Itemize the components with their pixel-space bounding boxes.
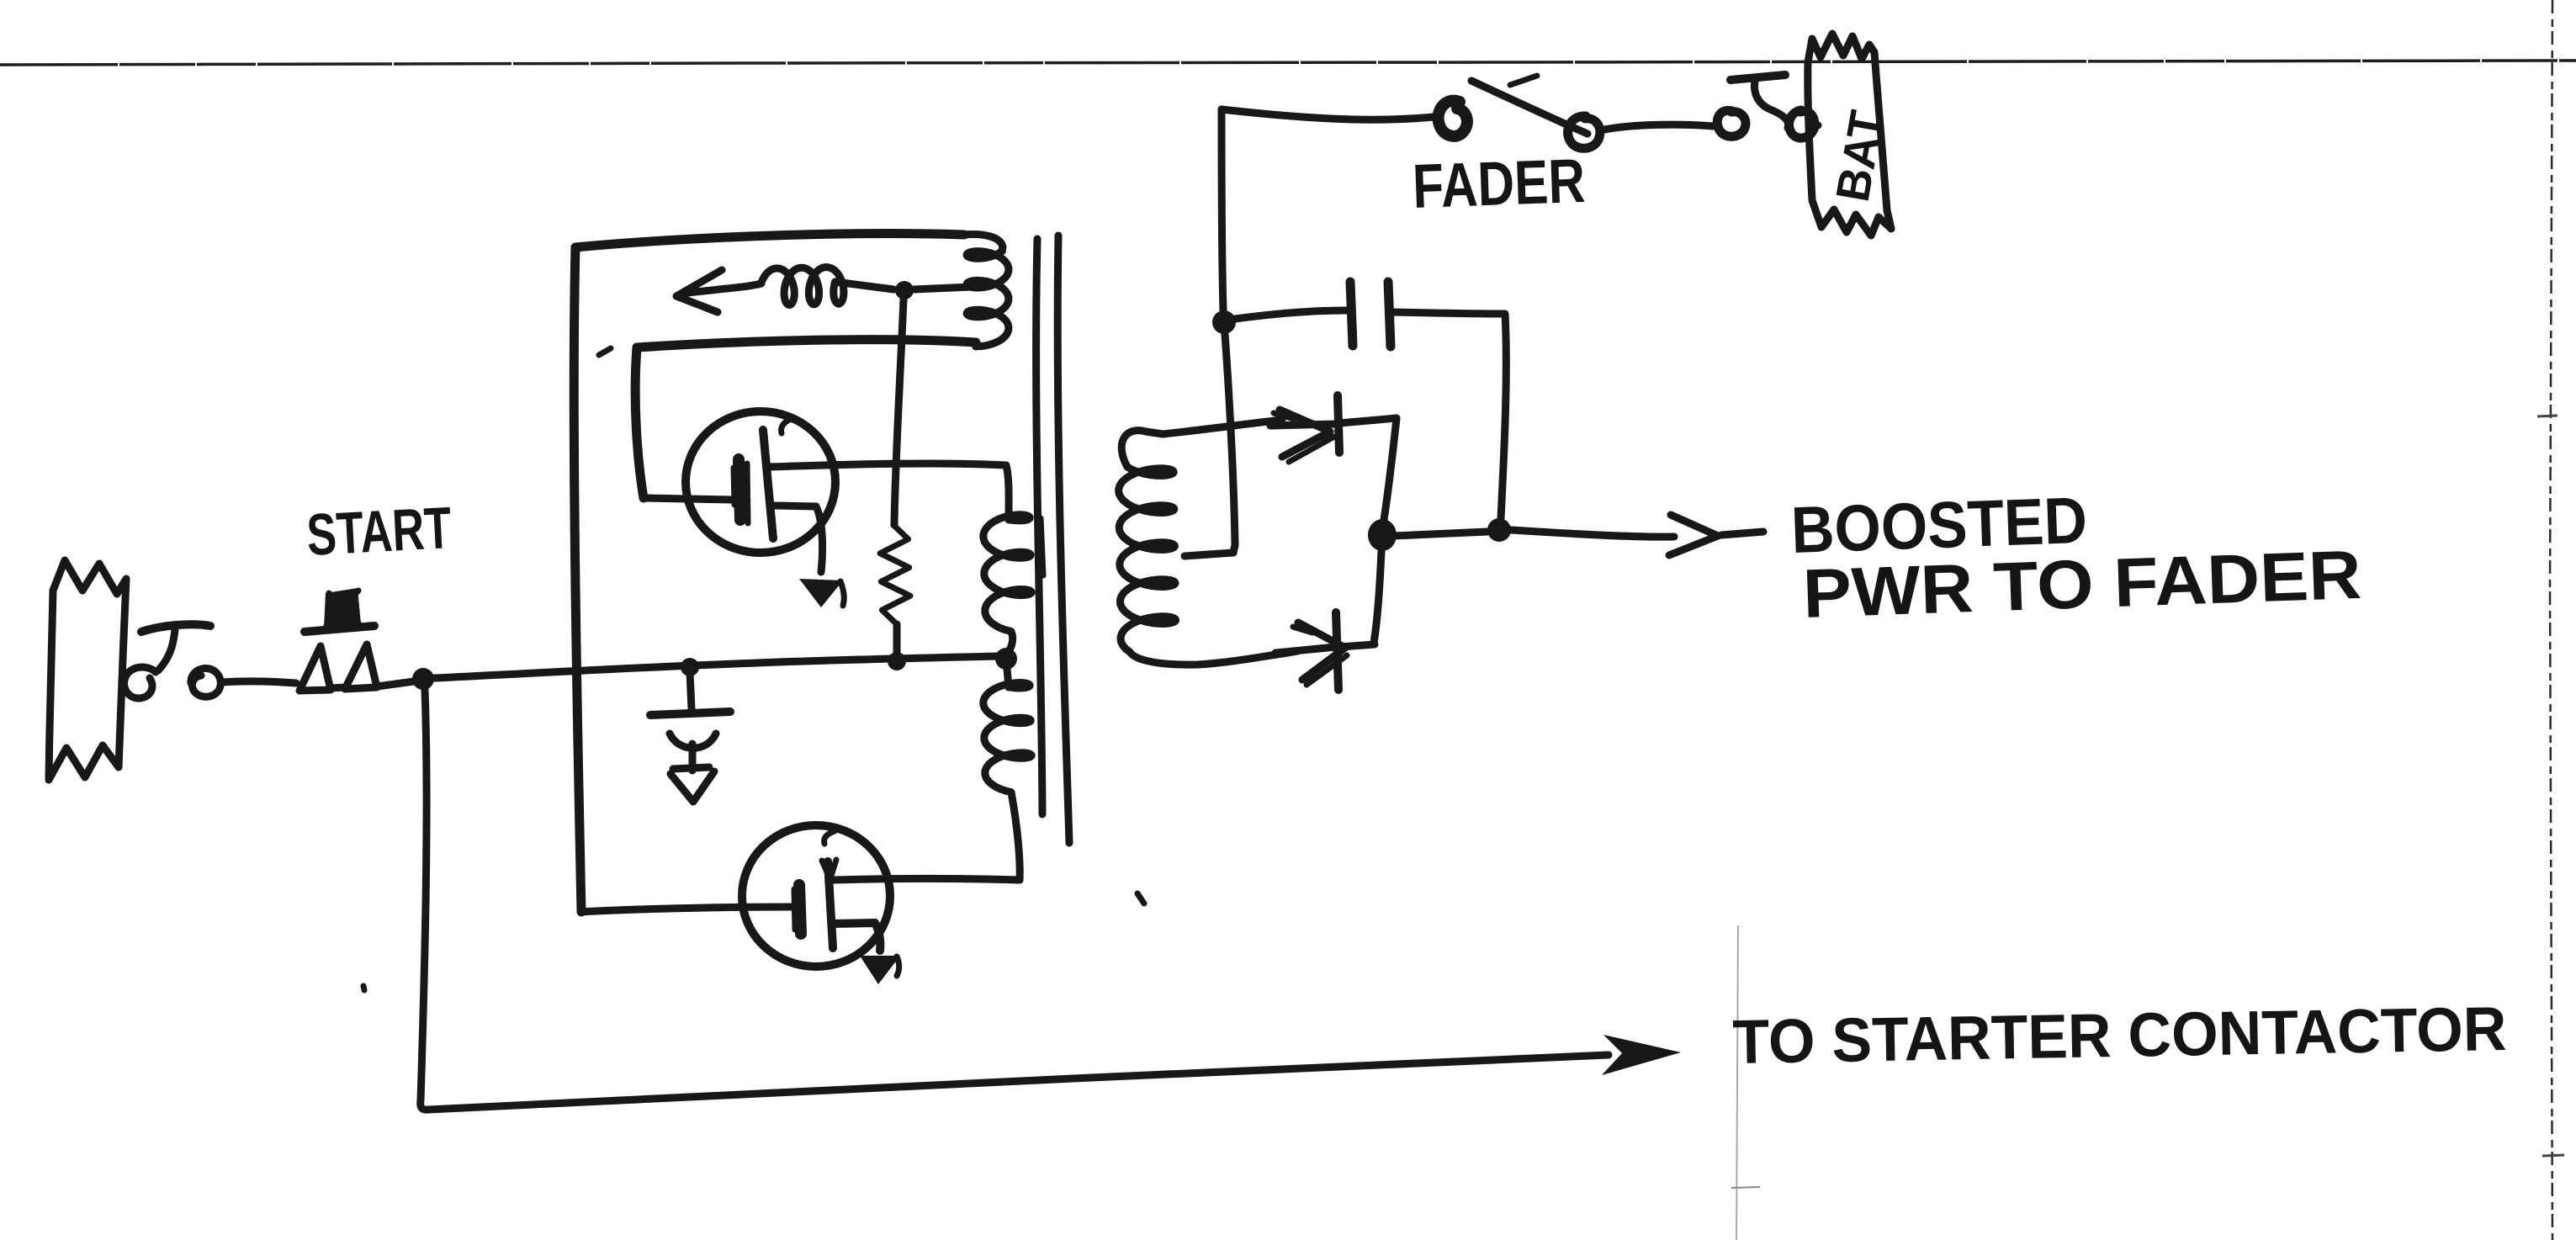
Q1 drain lead to mid winding: [769, 464, 1009, 520]
wire secondary bottom to D2: [1282, 651, 1297, 654]
inner box top edge: [637, 340, 976, 347]
fuse F2 (curl-T-curl): [1717, 75, 1818, 138]
svg-text:FADER: FADER: [1412, 146, 1587, 221]
paper crease (faint vertical line bottom middle): [1736, 925, 1738, 1240]
battery B1 torn paper (left): [49, 560, 126, 780]
fader switch left contact: [1439, 101, 1467, 136]
wire main horizontal (node N1 to transformer): [434, 656, 998, 678]
capacitor C2 right plate: [1388, 282, 1391, 347]
inner box left edge: [635, 347, 644, 498]
wire triangles to node: [331, 681, 414, 688]
diode D1 (top, open chevron + bar): [1270, 395, 1339, 462]
wire fader to fuse F2: [1600, 125, 1713, 130]
output wire to arrow: [1511, 530, 1674, 537]
capacitor C1 + ground (inside box): [650, 672, 730, 802]
wire top run to fader: [1222, 109, 1434, 119]
svg-text:TO STARTER CONTACTOR: TO STARTER CONTACTOR: [1732, 994, 2507, 1077]
node N1 (start switch junction): [412, 668, 434, 690]
wire box corner to Q2 gate: [581, 907, 791, 912]
transformer core left line: [1036, 239, 1042, 814]
mid primary winding: [983, 515, 1031, 632]
wire R1 to main wire: [893, 624, 901, 652]
node N6 (output node): [1487, 518, 1511, 542]
diode D2 (bottom, open chevron + bar): [1275, 612, 1347, 690]
node N3b (resistor to main wire): [888, 652, 906, 670]
wire node NA down to center tap: [1185, 334, 1235, 556]
secondary winding: [1119, 467, 1176, 652]
stray mark near secondary: [1137, 893, 1144, 904]
wire node NA up: [1222, 109, 1223, 310]
resistor R1 (vertical squiggle): [880, 525, 910, 624]
wire node NA to C2: [1235, 310, 1346, 319]
Q2 source lead + arrow: [833, 923, 880, 951]
lower primary winding: [1007, 669, 1009, 687]
tick marks right margin: [2537, 416, 2557, 416]
Q2 gate bar: [799, 885, 801, 934]
secondary bottom lead: [1130, 652, 1282, 665]
node N5 (rectifier output junction): [1368, 519, 1397, 551]
Q2 top diag strokes: [822, 860, 836, 876]
wire winding to Q2 drain: [833, 879, 1020, 881]
Q1 channel bar: [763, 430, 773, 538]
secondary winding top lead hook: [1121, 431, 1163, 467]
fader switch arm: [1471, 81, 1587, 134]
Q1 source lead + arrow: [775, 506, 823, 572]
Q2 channel bar: [828, 861, 833, 948]
small tick near box left edge: [599, 348, 611, 355]
transformer core right line: [1057, 236, 1069, 843]
wire fuse to switch: [222, 681, 296, 683]
oscillator box top edge: [575, 234, 964, 247]
arrowhead (boosted pwr): [1669, 515, 1718, 555]
node NA (center tap junction): [1212, 310, 1236, 334]
battery B2 torn paper (top right, BAT): [1808, 34, 1891, 236]
arrow + squiggle (feedback line inside box): [676, 268, 893, 313]
wire node N2 down to resistor R1: [894, 299, 904, 525]
wire node N2 to top winding: [914, 287, 973, 289]
secondary top lead to D1: [1163, 420, 1282, 434]
wire node N5 down to D2: [1374, 551, 1381, 643]
fader switch right contact: [1568, 116, 1600, 148]
switch S1 triangle 1: [299, 646, 331, 691]
transistor Q1 (circle): [686, 411, 835, 553]
wire D1 to node N5: [1339, 418, 1397, 525]
node N2 (small ring, on feedback line): [895, 281, 914, 299]
switch S1 button scribble: [324, 588, 361, 628]
transistor Q2 (circle): [742, 825, 890, 967]
transformer core left doubled stroke: [1041, 518, 1043, 575]
node N3a (cap tap on main wire): [681, 658, 699, 676]
wire to Q1 gate: [644, 498, 732, 500]
wire node N5 to node N6: [1394, 532, 1487, 536]
arrowhead (to starter contactor): [1602, 1035, 1681, 1075]
Q1 gate bar: [739, 459, 740, 520]
capacitor C2 left plate: [1350, 282, 1353, 346]
stray dot below node N1: [363, 986, 364, 990]
switch S1 bar under button: [305, 626, 374, 632]
top primary winding: [964, 235, 1003, 251]
wire node N1 down: [421, 690, 427, 1100]
wire bottom long run to starter contactor: [421, 1055, 1609, 1110]
oscillator box left edge: [574, 247, 581, 912]
fuse F1 (left, curl-T-curl): [125, 624, 221, 698]
wire C2 to down corner: [1393, 312, 1506, 518]
page edge (right vertical dashed line): [2550, 0, 2552, 1240]
node N4 (winding center tap to main wire): [995, 648, 1017, 670]
switch S1 triangle 2: [345, 644, 377, 689]
page rule (horizontal scan line): [0, 61, 2576, 65]
svg-text:START: START: [305, 495, 453, 568]
wire D2 to vertical: [1340, 644, 1375, 647]
